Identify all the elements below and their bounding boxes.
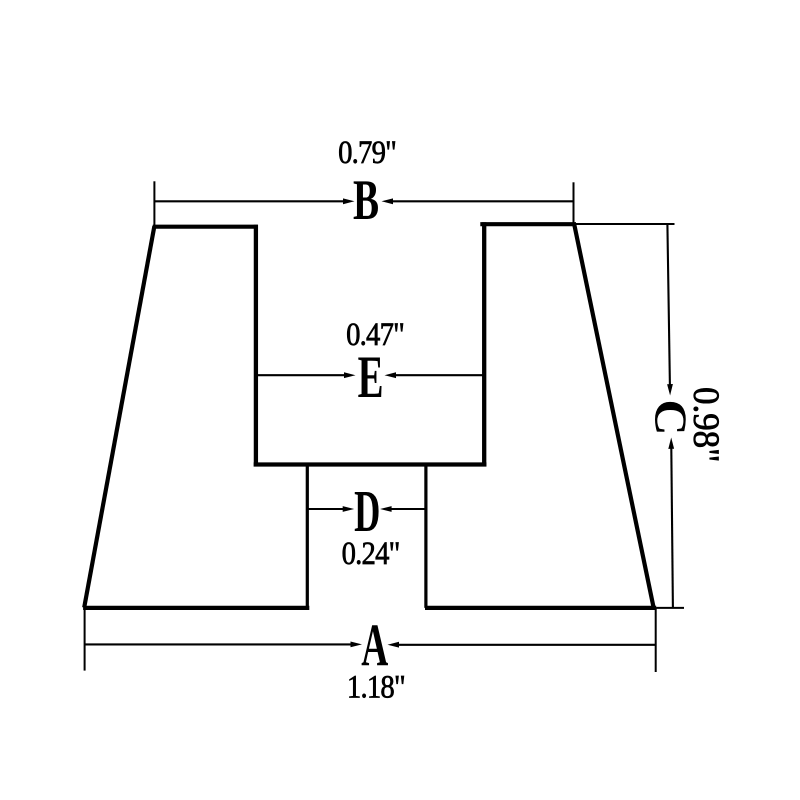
dim D: left arrowhead bbox=[343, 506, 355, 512]
dim C: top extension line bbox=[576, 223, 675, 225]
dim C: lower arrowhead (points up) bbox=[668, 438, 674, 449]
svg-text:0.98": 0.98" bbox=[686, 387, 727, 462]
dim E: right arrowhead bbox=[385, 372, 397, 378]
recess bottom edge bbox=[254, 462, 487, 466]
outline: bottom-left edge bbox=[83, 606, 309, 610]
recess right wall bbox=[482, 222, 486, 466]
svg-text:0.79": 0.79" bbox=[338, 133, 396, 170]
svg-text:1.18": 1.18" bbox=[347, 668, 405, 705]
dim E: right dimension line bbox=[395, 374, 484, 376]
dim E: left arrowhead bbox=[344, 372, 356, 378]
outline: right slant edge bbox=[574, 224, 653, 607]
dim B: right dimension line bbox=[392, 200, 574, 202]
dim B: left dimension line bbox=[154, 200, 344, 202]
dim B: left arrowhead bbox=[343, 198, 355, 204]
dim B: right extension line bbox=[573, 182, 575, 224]
outline: top-right top edge bbox=[480, 222, 576, 226]
hole left wall bbox=[306, 465, 309, 608]
dim A: left dimension line bbox=[85, 643, 352, 645]
dim A: right dimension line bbox=[398, 644, 656, 646]
dim C: upper arrowhead (points down) bbox=[667, 384, 673, 396]
outline: left slant edge bbox=[84, 226, 154, 608]
dim A: right extension line bbox=[655, 608, 657, 673]
dim C: bottom extension line bbox=[656, 607, 684, 609]
dim E: left dimension line bbox=[256, 374, 345, 376]
dim A: right arrowhead bbox=[388, 642, 400, 648]
svg-text:0.24": 0.24" bbox=[342, 534, 400, 571]
dim D: left dimension line bbox=[307, 508, 343, 510]
dim C: upper dimension line bbox=[667, 224, 670, 385]
svg-text:0.47": 0.47" bbox=[346, 315, 404, 352]
dim C: lower dimension line bbox=[671, 448, 673, 608]
dim A: left extension line bbox=[84, 608, 86, 671]
dim D: right arrowhead bbox=[380, 506, 392, 512]
svg-text:E: E bbox=[358, 345, 384, 412]
recess left wall bbox=[254, 225, 258, 467]
svg-text:B: B bbox=[353, 168, 379, 232]
dim A: left arrowhead bbox=[351, 642, 363, 648]
dim D: right dimension line bbox=[391, 508, 426, 510]
outline: bottom-right edge bbox=[425, 606, 656, 610]
hole right wall bbox=[424, 465, 427, 608]
dim B: right arrowhead bbox=[382, 198, 394, 204]
outline: top-left top edge bbox=[153, 225, 258, 229]
dim B: left extension line bbox=[153, 181, 155, 226]
